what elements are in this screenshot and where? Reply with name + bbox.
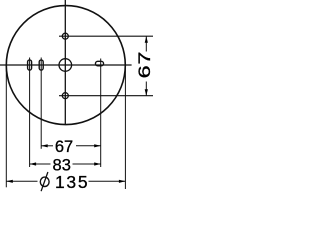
svg-text:67: 67 xyxy=(135,51,154,78)
svg-text:135: 135 xyxy=(55,172,89,192)
svg-text:67: 67 xyxy=(55,138,73,156)
